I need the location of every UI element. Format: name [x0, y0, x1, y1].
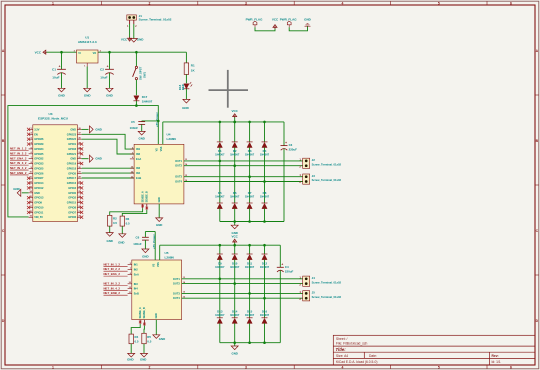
- svg-text:2: 2: [149, 366, 151, 370]
- switch SW1 SW_SPST: [135, 66, 137, 68]
- svg-text:GPIO9: GPIO9: [34, 201, 42, 205]
- power symbol GND under J1: [133, 37, 135, 38]
- driver U5 L298N: [132, 260, 182, 320]
- svg-text:GPIO17: GPIO17: [67, 176, 77, 180]
- wire D18 to ground: [185, 89, 187, 99]
- svg-text:IN1: IN1: [136, 147, 141, 151]
- wire R2 to ground: [109, 226, 111, 232]
- U3 left pins: [29, 128, 33, 130]
- svg-text:Rev:: Rev:: [492, 354, 499, 358]
- svg-text:ESP32S_Node_MCU: ESP32S_Node_MCU: [38, 117, 69, 121]
- svg-text:GND: GND: [34, 191, 40, 195]
- junction C1: [60, 51, 63, 54]
- svg-text:GND: GND: [95, 127, 101, 131]
- svg-text:Screw_Terminal_01x02: Screw_Terminal_01x02: [312, 295, 342, 299]
- svg-text:D5: D5: [218, 191, 222, 195]
- svg-text:GND: GND: [95, 157, 101, 161]
- svg-text:L298N: L298N: [165, 255, 175, 259]
- svg-text:NET_IN_4_2: NET_IN_4_2: [10, 166, 27, 170]
- U3 right pins: [77, 128, 81, 130]
- svg-text:IN3: IN3: [136, 166, 141, 170]
- svg-text:Id: 1/1: Id: 1/1: [492, 360, 501, 364]
- power flag PWR_FLAG 1: [254, 25, 256, 27]
- svg-text:D10: D10: [232, 261, 238, 265]
- svg-text:D14: D14: [232, 309, 238, 313]
- svg-text:SENSE_A: SENSE_A: [139, 307, 142, 318]
- J1 pin 1 wire: [129, 20, 131, 24]
- capacitor C4 220uF: [279, 245, 281, 267]
- svg-text:0.5: 0.5: [126, 222, 130, 226]
- svg-text:NET_IN_2_2: NET_IN_2_2: [10, 151, 27, 155]
- svg-text:GND: GND: [137, 37, 145, 41]
- wire U4 SENSE_A to R2: [110, 208, 143, 215]
- driver U4 L298N: [134, 144, 184, 204]
- diode D16 1N4007: [264, 298, 266, 318]
- diode D1 1N4007: [219, 122, 221, 142]
- svg-text:+: +: [281, 263, 283, 267]
- svg-text:GPIO4: GPIO4: [68, 186, 76, 190]
- wire PWR_FLAG1 to VCC: [255, 27, 275, 31]
- lower diode rail wire: [160, 244, 281, 246]
- svg-text:C4: C4: [285, 265, 289, 269]
- junction C2: [108, 51, 111, 54]
- svg-text:+5V Power: +5V Power: [155, 111, 159, 127]
- svg-text:1N4007: 1N4007: [230, 195, 240, 199]
- svg-text:GPIO1: GPIO1: [68, 142, 76, 146]
- svg-text:6: 6: [510, 1, 512, 5]
- svg-text:J5: J5: [312, 291, 316, 295]
- svg-text:D3: D3: [248, 149, 252, 153]
- svg-text:R4: R4: [135, 335, 139, 339]
- svg-text:SENSE_A: SENSE_A: [141, 191, 144, 202]
- svg-text:C6: C6: [135, 236, 139, 240]
- svg-text:Size: A4: Size: A4: [336, 354, 348, 358]
- wire R1 to D18: [185, 74, 187, 83]
- svg-text:D16: D16: [262, 309, 268, 313]
- svg-text:C2: C2: [100, 67, 104, 71]
- ground at U3 right pin1: [82, 128, 89, 130]
- ground upper diode rail: [234, 222, 236, 225]
- svg-text:NET_IN_1_2: NET_IN_1_2: [104, 262, 121, 266]
- svg-text:VSS: VSS: [160, 146, 163, 151]
- svg-text:VCC: VCC: [35, 50, 42, 54]
- svg-text:SENSE_B: SENSE_B: [143, 307, 146, 318]
- svg-text:1N4007: 1N4007: [260, 153, 270, 157]
- svg-text:GND: GND: [156, 223, 162, 227]
- diode D2 1N4007: [234, 122, 236, 142]
- regulator U1 AMS1117-3.3: [77, 50, 99, 63]
- wire U5 OUT3 to J5 pin1: [182, 292, 303, 294]
- svg-text:RED: RED: [181, 84, 185, 90]
- svg-text:GPIO39: GPIO39: [34, 142, 44, 146]
- svg-text:GND: GND: [84, 94, 92, 98]
- svg-text:1N4007: 1N4007: [142, 99, 153, 103]
- svg-text:+: +: [59, 65, 61, 69]
- svg-text:GPIO34: GPIO34: [34, 147, 44, 151]
- svg-text:GND: GND: [159, 337, 165, 341]
- resistor R1: [184, 63, 188, 75]
- svg-text:GND: GND: [58, 94, 66, 98]
- ground below C5: [141, 130, 143, 131]
- svg-text:3: 3: [245, 1, 247, 5]
- svg-text:100nF: 100nF: [130, 126, 139, 130]
- svg-text:GPIO0: GPIO0: [68, 191, 76, 195]
- svg-text:SW1: SW1: [143, 71, 147, 78]
- ground below U1: [86, 87, 88, 88]
- diode D10 1N4007: [234, 245, 236, 254]
- svg-text:GPIO22: GPIO22: [67, 137, 77, 141]
- svg-text:GND: GND: [138, 136, 144, 140]
- svg-text:GND: GND: [140, 358, 146, 362]
- svg-text:GND: GND: [106, 94, 114, 98]
- svg-text:NET_IN_4_2: NET_IN_4_2: [104, 286, 121, 290]
- svg-text:1N4007: 1N4007: [245, 195, 255, 199]
- ground lower diode rail: [234, 343, 236, 345]
- svg-text:SENSE_B: SENSE_B: [146, 191, 149, 202]
- title block frame: [333, 335, 535, 365]
- svg-text:1N4007: 1N4007: [215, 265, 225, 269]
- svg-text:GND: GND: [142, 254, 148, 258]
- svg-text:GND: GND: [231, 352, 237, 356]
- upper diode bottom rail: [220, 221, 284, 223]
- diode D13 1N4007: [219, 279, 221, 318]
- svg-text:GPIO23: GPIO23: [67, 132, 77, 136]
- resistor R4: [129, 334, 133, 344]
- svg-text:2: 2: [149, 1, 151, 5]
- svg-text:IN2: IN2: [134, 268, 139, 272]
- svg-text:4: 4: [341, 1, 343, 5]
- svg-text:D1: D1: [218, 149, 222, 153]
- svg-text:4: 4: [341, 366, 343, 370]
- diode D8 1N4007: [264, 182, 266, 204]
- svg-text:GPIO12: GPIO12: [34, 186, 44, 190]
- ground below C6: [144, 248, 146, 249]
- svg-text:J2: J2: [312, 158, 316, 162]
- ground below R5: [143, 352, 145, 353]
- connector J1 screw terminal 01x02: [127, 15, 137, 20]
- svg-text:1N4007: 1N4007: [230, 153, 240, 157]
- ground below U5: [155, 334, 157, 335]
- svg-text:IN1: IN1: [134, 263, 139, 267]
- svg-text:NET_ENA_2: NET_ENA_2: [10, 156, 27, 160]
- svg-text:GPIO18: GPIO18: [67, 166, 77, 170]
- svg-text:1N4007: 1N4007: [230, 265, 240, 269]
- wire U3 GPIO19 to U4 IN3: [82, 167, 135, 169]
- svg-text:1N4007: 1N4007: [245, 153, 255, 157]
- wire VCC rail to SW1: [135, 52, 137, 66]
- svg-text:0.5: 0.5: [147, 339, 151, 343]
- svg-text:NET_ENB_2: NET_ENB_2: [104, 291, 121, 295]
- svg-text:GPIO2: GPIO2: [68, 196, 76, 200]
- svg-text:GPIO19: GPIO19: [67, 162, 77, 166]
- resistor R3: [120, 216, 124, 226]
- ground below D18: [185, 98, 187, 99]
- svg-text:GPIO27: GPIO27: [34, 176, 44, 180]
- wire U5 OUT1 to J4 pin1: [182, 278, 303, 280]
- svg-text:GPIO35: GPIO35: [34, 152, 44, 156]
- svg-text:NET_IN_3_2: NET_IN_3_2: [104, 281, 121, 285]
- svg-text:File: FitBot.kicad_sch: File: FitBot.kicad_sch: [336, 342, 367, 346]
- svg-text:Screw_Terminal_01x02: Screw_Terminal_01x02: [312, 162, 342, 166]
- svg-text:220uF: 220uF: [285, 269, 294, 273]
- svg-text:Screw_Terminal_01x02: Screw_Terminal_01x02: [312, 280, 342, 284]
- svg-text:GPIO33: GPIO33: [34, 162, 44, 166]
- svg-text:D13: D13: [217, 309, 223, 313]
- wire U5 SENSE_A to R4: [131, 324, 140, 334]
- svg-text:GPIO32: GPIO32: [34, 157, 44, 161]
- svg-text:R1: R1: [191, 63, 195, 67]
- svg-text:GND: GND: [155, 313, 158, 319]
- svg-text:J4: J4: [312, 276, 316, 280]
- svg-text:VS: VS: [155, 148, 158, 152]
- svg-text:GND: GND: [70, 127, 76, 131]
- svg-text:KiCad E.D.A. kicad (6.0.5-0): KiCad E.D.A. kicad (6.0.5-0): [336, 360, 377, 364]
- ground at U3 right pin7: [82, 158, 89, 160]
- svg-text:D9: D9: [218, 261, 222, 265]
- svg-text:VCC: VCC: [121, 37, 128, 41]
- wire R4 to ground: [130, 344, 132, 353]
- svg-text:220uF: 220uF: [289, 148, 298, 152]
- diode D6 1N4007: [234, 166, 236, 203]
- capacitor C1: [61, 52, 63, 69]
- ground at U3 left GND pin: [22, 192, 29, 194]
- svg-text:GPIO16: GPIO16: [67, 181, 77, 185]
- svg-text:GND: GND: [127, 358, 133, 362]
- wire U4 OUT1 to J2 pin1: [184, 160, 303, 162]
- ground below C2: [109, 87, 111, 88]
- svg-text:3: 3: [245, 366, 247, 370]
- svg-text:NET_IN_3_2: NET_IN_3_2: [10, 161, 27, 165]
- svg-text:R3: R3: [126, 217, 130, 221]
- U5 input pins: [128, 264, 132, 266]
- svg-text:GPIO36: GPIO36: [34, 137, 44, 141]
- power symbol VCC left: [43, 50, 47, 54]
- svg-text:10uF: 10uF: [100, 75, 107, 79]
- svg-text:IN4: IN4: [136, 171, 141, 175]
- U4 VSS pin: [162, 122, 164, 144]
- diode D15 1N4007: [249, 293, 251, 317]
- svg-text:GPIO21: GPIO21: [67, 152, 77, 156]
- svg-text:OUT1: OUT1: [175, 159, 182, 163]
- ground below R4: [130, 352, 132, 353]
- svg-text:Title:: Title:: [336, 347, 347, 352]
- svg-text:GND: GND: [13, 187, 19, 191]
- svg-text:D12: D12: [262, 261, 268, 265]
- svg-text:D7: D7: [248, 191, 252, 195]
- svg-text:C3: C3: [289, 143, 293, 147]
- svg-text:+5V Power: +5V Power: [152, 233, 156, 249]
- svg-text:NET_IN_1_2: NET_IN_1_2: [10, 147, 27, 151]
- svg-text:Screw_Terminal_01x02: Screw_Terminal_01x02: [139, 18, 172, 22]
- power symbol VCC under J1: [128, 37, 132, 41]
- diode D14 1N4007: [234, 284, 236, 318]
- upper diode rail wire: [163, 121, 284, 123]
- svg-text:GND: GND: [118, 241, 124, 245]
- svg-text:EnB: EnB: [136, 176, 141, 180]
- svg-text:D8: D8: [263, 191, 267, 195]
- svg-text:VI: VI: [78, 52, 81, 55]
- svg-text:GPIO8: GPIO8: [68, 205, 76, 209]
- diode D17 1N4007: [134, 96, 139, 101]
- svg-text:1N4007: 1N4007: [215, 195, 225, 199]
- svg-text:EN: EN: [34, 132, 38, 136]
- svg-text:GND: GND: [182, 106, 190, 110]
- svg-text:R5: R5: [147, 335, 151, 339]
- svg-text:D6: D6: [233, 191, 237, 195]
- diode D7 1N4007: [249, 177, 251, 203]
- svg-text:EnA: EnA: [134, 273, 139, 277]
- svg-text:Sheet: /: Sheet: /: [336, 337, 347, 341]
- U3 no-connect marks left: [27, 128, 30, 131]
- diode D5 1N4007: [219, 161, 221, 203]
- ground below R2: [109, 231, 111, 232]
- svg-text:1: 1: [52, 1, 54, 5]
- svg-text:+: +: [285, 141, 287, 145]
- wire R5 to ground: [143, 344, 145, 353]
- svg-text:GPIO26: GPIO26: [34, 171, 44, 175]
- svg-text:100nF: 100nF: [133, 242, 142, 246]
- svg-text:D15: D15: [247, 309, 253, 313]
- wire U3 GPIO5 to U4 EnB: [82, 177, 135, 179]
- svg-text:6: 6: [510, 366, 512, 370]
- svg-text:1N4007: 1N4007: [215, 313, 225, 317]
- svg-text:Date:: Date:: [369, 354, 377, 358]
- svg-text:VIN_5V: VIN_5V: [34, 215, 43, 219]
- svg-text:D4: D4: [263, 149, 267, 153]
- graphic crosshair lines: [209, 89, 249, 91]
- svg-text:VO: VO: [93, 52, 97, 55]
- svg-text:J3: J3: [312, 174, 316, 178]
- svg-text:GND: GND: [304, 18, 312, 22]
- svg-text:NET_IN_2_2: NET_IN_2_2: [104, 267, 121, 271]
- capacitor C5 100nF: [142, 120, 159, 122]
- wire U4 SENSE_B to R3: [122, 210, 147, 216]
- svg-text:OUT2: OUT2: [173, 282, 180, 286]
- regulator U1 ground pin: [86, 63, 88, 67]
- svg-text:NET_ENB_2: NET_ENB_2: [10, 171, 27, 175]
- wire +5V node to U4 VS: [136, 106, 158, 145]
- wire PWR_FLAG2 to GND: [289, 26, 307, 31]
- svg-text:GND: GND: [158, 197, 161, 203]
- svg-text:1N4007: 1N4007: [230, 313, 240, 317]
- power symbol GND flag: [305, 25, 311, 27]
- svg-text:GPIO14: GPIO14: [34, 181, 44, 185]
- svg-text:VCC: VCC: [232, 109, 239, 113]
- svg-text:PWR_FLAG: PWR_FLAG: [280, 18, 297, 22]
- U3 no-connect marks right: [80, 142, 83, 145]
- svg-text:GPIO7: GPIO7: [68, 210, 76, 214]
- lower diode bottom rail: [220, 342, 280, 344]
- wire U3 GPIO18 to U4 IN4: [82, 172, 135, 174]
- svg-text:OUT1: OUT1: [173, 277, 180, 281]
- svg-text:GPIO5: GPIO5: [68, 171, 76, 175]
- svg-text:GPIO10: GPIO10: [34, 205, 44, 209]
- svg-text:R2: R2: [113, 216, 117, 220]
- ground below C1: [61, 87, 63, 88]
- junction +5V node: [135, 104, 138, 107]
- svg-text:OUT4: OUT4: [173, 296, 180, 300]
- power flag PWR_FLAG 2: [288, 25, 290, 27]
- svg-text:10uF: 10uF: [52, 75, 59, 79]
- diode D12 1N4007: [264, 245, 266, 254]
- svg-text:U3: U3: [49, 112, 53, 116]
- capacitor C2: [109, 52, 111, 69]
- svg-text:OUT3: OUT3: [173, 291, 180, 295]
- svg-text:OUT4: OUT4: [175, 180, 182, 184]
- svg-text:VCC: VCC: [232, 235, 239, 239]
- svg-text:GPIO6: GPIO6: [68, 215, 76, 219]
- svg-text:GND: GND: [70, 157, 76, 161]
- capacitor C6 100nF: [145, 231, 155, 233]
- wire +5V rail to ESP32 VIN: [8, 106, 137, 217]
- svg-text:C5: C5: [131, 120, 135, 124]
- svg-text:5: 5: [438, 1, 440, 5]
- wire D17 to +5V node: [135, 101, 137, 106]
- power symbol VCC flag: [273, 25, 277, 29]
- J1 pin 2 wire: [133, 20, 135, 24]
- svg-text:5: 5: [438, 366, 440, 370]
- wire U4 OUT2 to J2 pin2: [184, 165, 303, 167]
- svg-text:L298N: L298N: [167, 137, 177, 141]
- wire R3 to ground: [121, 226, 123, 233]
- U5 VSS pin: [159, 245, 161, 260]
- svg-text:PWR_FLAG: PWR_FLAG: [246, 18, 263, 22]
- svg-text:GPIO13: GPIO13: [34, 196, 44, 200]
- svg-text:+: +: [107, 65, 109, 69]
- svg-text:0.5: 0.5: [135, 339, 139, 343]
- wire U5 SENSE_B to R5: [143, 326, 145, 334]
- svg-text:1: 1: [52, 366, 54, 370]
- diode D9 1N4007: [219, 245, 221, 254]
- diode D11 1N4007: [249, 245, 251, 254]
- diode D3 1N4007: [249, 122, 251, 142]
- diode D4 1N4007: [264, 122, 266, 142]
- svg-text:EnA: EnA: [136, 157, 141, 161]
- svg-text:EnB: EnB: [134, 292, 139, 296]
- svg-text:1N4007: 1N4007: [215, 153, 225, 157]
- svg-text:IN2: IN2: [136, 152, 141, 156]
- resistor R2: [108, 215, 112, 226]
- svg-text:1N4007: 1N4007: [245, 265, 255, 269]
- svg-text:VSS: VSS: [157, 262, 160, 267]
- svg-text:3.3V: 3.3V: [34, 127, 40, 131]
- ground below R3: [121, 233, 123, 234]
- U4 input pins: [130, 148, 134, 150]
- svg-text:1N4007: 1N4007: [245, 313, 255, 317]
- svg-text:1N4007: 1N4007: [260, 195, 270, 199]
- wire U4 OUT3 to J3 pin1: [184, 176, 303, 178]
- wire U4 OUT4 to J3 pin2: [184, 181, 303, 183]
- svg-text:OUT2: OUT2: [175, 164, 182, 168]
- svg-text:GPIO15: GPIO15: [67, 201, 77, 205]
- wire rail to R1: [185, 52, 187, 63]
- svg-text:GPIO25: GPIO25: [34, 166, 44, 170]
- svg-text:0.5: 0.5: [113, 221, 117, 225]
- svg-text:VS: VS: [152, 263, 155, 267]
- svg-text:GPIO3: GPIO3: [68, 147, 76, 151]
- wire SW1 to D17: [135, 80, 137, 96]
- svg-text:VCC: VCC: [272, 18, 279, 22]
- wire U5 OUT4 to J5 pin2: [182, 297, 303, 299]
- module U3 ESP32S_Node_MCU: [33, 125, 78, 222]
- svg-text:IN4: IN4: [134, 287, 139, 291]
- ground below U4: [158, 217, 160, 218]
- svg-text:C1: C1: [52, 67, 56, 71]
- U5 VS pin: [154, 232, 156, 261]
- wire U5 OUT2 to J4 pin2: [182, 283, 303, 285]
- wire main VCC rail: [47, 51, 187, 53]
- svg-text:GND: GND: [106, 239, 112, 243]
